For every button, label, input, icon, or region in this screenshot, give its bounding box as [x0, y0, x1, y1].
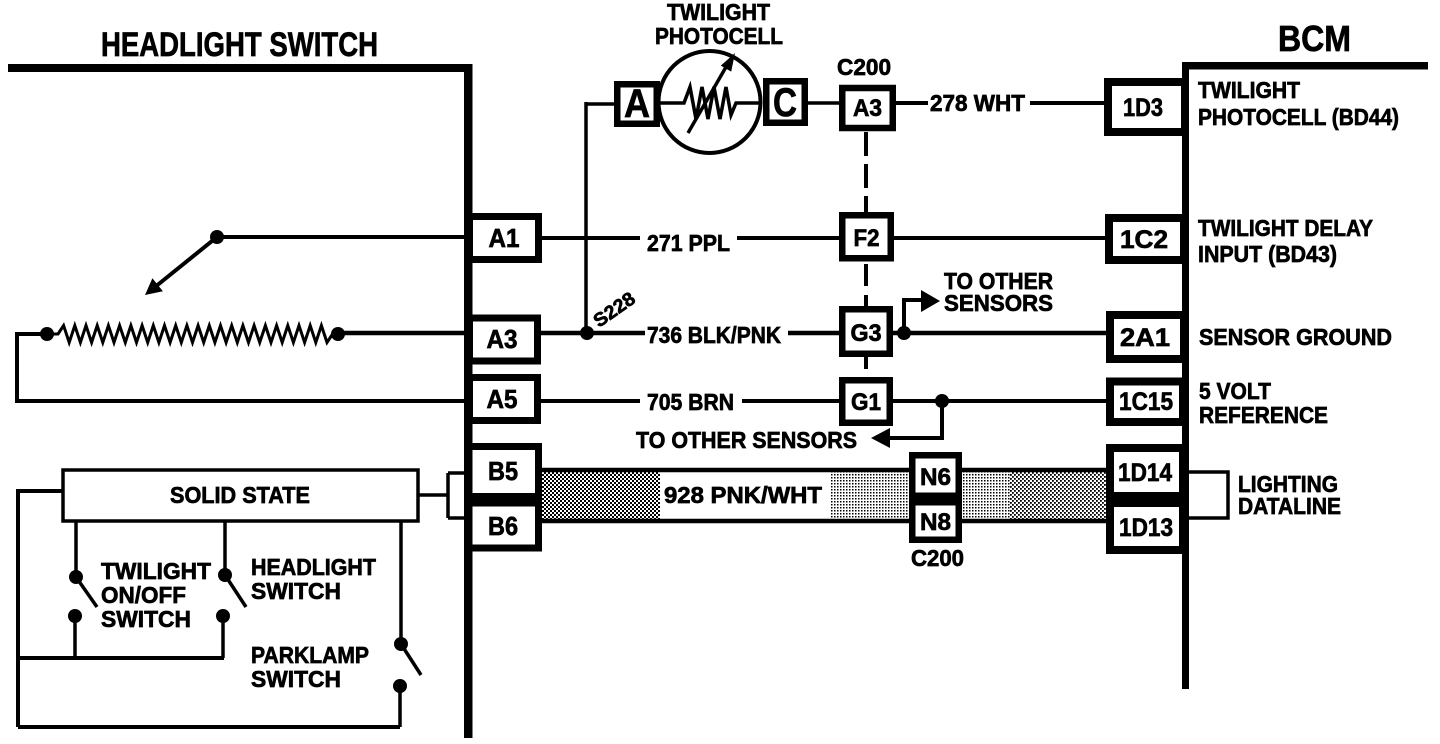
connector C200 pin box A3: [842, 88, 893, 128]
svg-text:PARKLAMP: PARKLAMP: [251, 642, 369, 668]
connector pin box G3: [842, 309, 890, 354]
svg-text:TWILIGHT: TWILIGHT: [667, 0, 770, 25]
svg-text:TWILIGHT DELAY: TWILIGHT DELAY: [1198, 215, 1373, 241]
label TO OTHER SENSORS (upper): [944, 268, 1053, 316]
svg-text:ON/OFF: ON/OFF: [101, 582, 186, 608]
wire resistor to A3: [338, 331, 469, 336]
svg-text:DATALINE: DATALINE: [1238, 493, 1341, 519]
svg-text:2A1: 2A1: [1120, 324, 1170, 352]
headlight switch boundary vertical line: [464, 64, 473, 738]
svg-text:HEADLIGHT SWITCH: HEADLIGHT SWITCH: [101, 26, 378, 64]
svg-text:271 PPL: 271 PPL: [647, 230, 730, 256]
label TWILIGHT PHOTOCELL: [655, 0, 783, 49]
wire A1 to switch arm: [217, 235, 469, 239]
connector C200 pin box N6: [912, 455, 959, 496]
svg-text:BCM: BCM: [1278, 18, 1351, 59]
BCM pin box 1C2: [1109, 218, 1184, 260]
BCM boundary top bar: [1183, 62, 1428, 70]
junction and arrow to other sensors (upper): [897, 290, 940, 340]
connector pin box G1: [842, 380, 890, 423]
svg-text:HEADLIGHT: HEADLIGHT: [251, 554, 376, 580]
dashed connector line G3 to G1: [864, 357, 868, 377]
wire switch common bus: [18, 656, 224, 660]
svg-text:A5: A5: [487, 384, 518, 414]
svg-text:A3: A3: [487, 324, 518, 354]
svg-text:F2: F2: [854, 225, 880, 252]
label TWILIGHT ON/OFF SWITCH: [101, 558, 211, 632]
svg-text:SENSOR GROUND: SENSOR GROUND: [1199, 324, 1392, 350]
BCM pin box 2A1: [1110, 315, 1184, 359]
label TWILIGHT DELAY INPUT (BD43): [1198, 215, 1373, 267]
svg-text:C200: C200: [911, 545, 964, 571]
svg-text:PHOTOCELL (BD44): PHOTOCELL (BD44): [1198, 104, 1399, 130]
svg-text:A: A: [624, 82, 650, 126]
label TWILIGHT PHOTOCELL (BD44): [1198, 77, 1399, 130]
BCM pin box 1D14: [1110, 448, 1183, 496]
dashed connector line F2 to G3: [864, 264, 868, 306]
svg-text:N8: N8: [920, 509, 951, 536]
svg-text:705 BRN: 705 BRN: [647, 389, 734, 415]
svg-text:SWITCH: SWITCH: [251, 666, 341, 692]
wire rheostat return loop: [17, 334, 469, 401]
wire 278 WHT: [896, 101, 1106, 105]
dataline shaded band 928 PNK/WHT: [541, 470, 1106, 521]
lighting dataline bracket: [1189, 472, 1228, 518]
wire bottom bus: [18, 725, 400, 729]
svg-text:278 WHT: 278 WHT: [930, 90, 1025, 116]
BCM pin box 1D13: [1110, 503, 1183, 550]
twilight on/off switch: [68, 521, 97, 658]
svg-text:TWILIGHT: TWILIGHT: [101, 558, 211, 584]
svg-text:B5: B5: [488, 456, 518, 486]
pin box A (photocell): [617, 82, 657, 126]
headlight switch boundary top bar: [8, 64, 472, 72]
svg-text:G1: G1: [851, 389, 881, 416]
wire 271 PPL: [542, 236, 1107, 240]
svg-text:SWITCH: SWITCH: [101, 606, 191, 632]
rheostat resistor: [40, 326, 345, 343]
wire solid state to B5/B6 bracket: [418, 473, 468, 518]
splice S228: [580, 289, 640, 340]
svg-text:INPUT (BD43): INPUT (BD43): [1198, 241, 1337, 267]
svg-text:B6: B6: [488, 511, 518, 541]
pin box A5: [470, 378, 538, 421]
svg-text:TO OTHER SENSORS: TO OTHER SENSORS: [636, 427, 857, 453]
svg-text:A3: A3: [853, 95, 882, 122]
svg-text:PHOTOCELL: PHOTOCELL: [655, 23, 783, 49]
photocell body circle: [659, 51, 761, 153]
pin box A3: [470, 318, 538, 361]
switch arm at A1: [145, 230, 224, 295]
connector C200 pin box N8: [912, 502, 959, 540]
solid state box: [63, 470, 418, 521]
label HEADLIGHT SWITCH (contact): [251, 554, 376, 604]
label PARKLAMP SWITCH: [251, 642, 369, 692]
wire from splice to photocell pin A: [586, 102, 614, 333]
photocell arrow: [688, 67, 726, 133]
svg-text:G3: G3: [851, 320, 882, 347]
svg-text:A1: A1: [489, 223, 520, 253]
BCM pin box 1D3: [1108, 82, 1185, 132]
svg-text:SWITCH: SWITCH: [251, 578, 341, 604]
svg-text:C: C: [773, 81, 797, 125]
pin box B5: [469, 447, 539, 497]
dashed connector line A3 to F2: [864, 132, 868, 212]
svg-text:1C15: 1C15: [1119, 388, 1173, 416]
svg-text:1D3: 1D3: [1123, 94, 1163, 122]
svg-text:1D13: 1D13: [1119, 514, 1173, 542]
BCM pin box 1C15: [1110, 382, 1183, 423]
svg-text:736 BLK/PNK: 736 BLK/PNK: [647, 322, 781, 348]
parklamp switch: [393, 521, 421, 727]
junction and arrow to other sensors (lower): [871, 394, 949, 448]
svg-text:TWILIGHT: TWILIGHT: [1198, 77, 1300, 103]
svg-text:1C2: 1C2: [1120, 226, 1168, 254]
label LIGHTING DATALINE: [1238, 471, 1341, 519]
svg-text:5 VOLT: 5 VOLT: [1199, 378, 1271, 404]
svg-text:SOLID STATE: SOLID STATE: [170, 482, 310, 508]
pin box B6: [469, 503, 539, 548]
svg-text:SENSORS: SENSORS: [944, 290, 1053, 316]
svg-text:928 PNK/WHT: 928 PNK/WHT: [664, 482, 822, 508]
svg-text:REFERENCE: REFERENCE: [1199, 402, 1328, 428]
svg-text:N6: N6: [920, 464, 951, 491]
wire C to connector C200 A3: [805, 101, 839, 105]
wire solid state left feed: [18, 491, 63, 727]
BCM boundary vertical line: [1182, 62, 1189, 689]
label 5 VOLT REFERENCE: [1199, 378, 1328, 428]
wire 705 BRN: [541, 399, 1108, 403]
pin box C (photocell): [766, 81, 805, 125]
pin box A1: [470, 217, 539, 260]
svg-text:C200: C200: [837, 54, 891, 80]
photocell variable resistor zigzag: [658, 87, 762, 119]
headlight switch contact: [216, 521, 246, 658]
wire 736 BLK/PNK: [541, 331, 1108, 336]
connector pin box F2: [842, 215, 891, 258]
svg-text:1D14: 1D14: [1118, 459, 1172, 487]
